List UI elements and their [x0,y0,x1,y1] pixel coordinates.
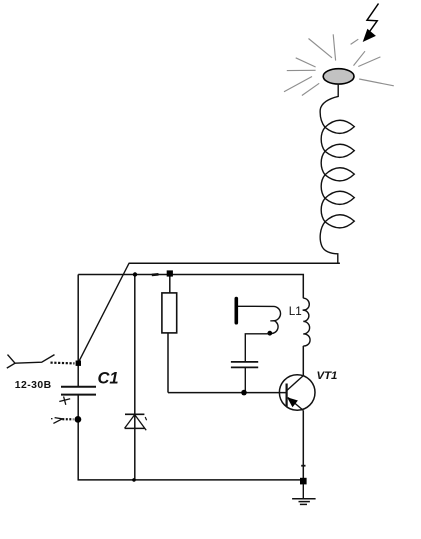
node on supply rail [133,272,137,276]
svg-text:L1: L1 [289,305,302,318]
wire: winding to capacitor [245,334,269,361]
coupling winding core bar [235,299,239,323]
dashed lead to node [51,362,75,365]
node: ground junction [300,478,307,485]
discharge terminal ball [323,69,354,84]
secondary coil turn 1 [325,120,354,133]
solder tick on emitter wire [301,465,305,467]
spark discharge rays [284,34,394,95]
node: winding end [267,331,272,336]
inductor cusp tick [303,309,307,311]
svg-text:12-30B: 12-30B [15,380,52,391]
svg-text:VT1: VT1 [317,370,338,382]
wire: collector [302,346,304,376]
diode VD1 branch wire [134,275,136,480]
wire: second rail (supply rail) [78,275,303,299]
wire: diagonal feed from battery node to top rail [78,263,129,363]
lightning bolt arrow [363,4,379,43]
wire: emitter to ground [302,410,304,480]
zener tick [145,417,146,420]
inductor L1 [303,298,310,346]
diode VD1 symbol [125,414,147,430]
dashed lead to node [62,418,73,420]
transistor VT1 [279,375,315,411]
capacitor C1 plates [61,386,96,388]
secondary coil helix spine and lead [320,84,338,264]
node: battery minus junction [75,416,82,423]
connector X1 lower terminal [51,418,62,424]
secondary coil turn 2 [325,144,354,157]
node: resistor top junction [167,270,173,276]
wire: left vertical (battery branch) [77,275,79,387]
resistor R1 [169,275,171,293]
secondary coil turn 4 [325,191,354,204]
connector X1 upper terminal [7,355,55,369]
capacitor C2 plates [231,361,258,363]
wire: bottom rail [78,479,304,481]
node: battery plus junction [76,361,81,366]
winding cusp tick [270,320,274,322]
wire: top rail from diagonal to helix [129,262,340,264]
svg-text:C1: C1 [98,370,119,388]
node on bottom rail [132,478,136,482]
node: base junction [241,390,247,396]
secondary coil turn 5 [325,215,354,228]
coupling winding L2 [238,306,281,333]
solder tick on supply rail [152,273,159,276]
secondary coil turn 3 [325,168,354,181]
polarity plus mark [59,397,70,405]
emitter arrow (PNP) [287,397,298,407]
capacitor C2 lead [244,367,246,392]
wire: base drive [168,392,286,394]
ground symbol [292,484,316,504]
